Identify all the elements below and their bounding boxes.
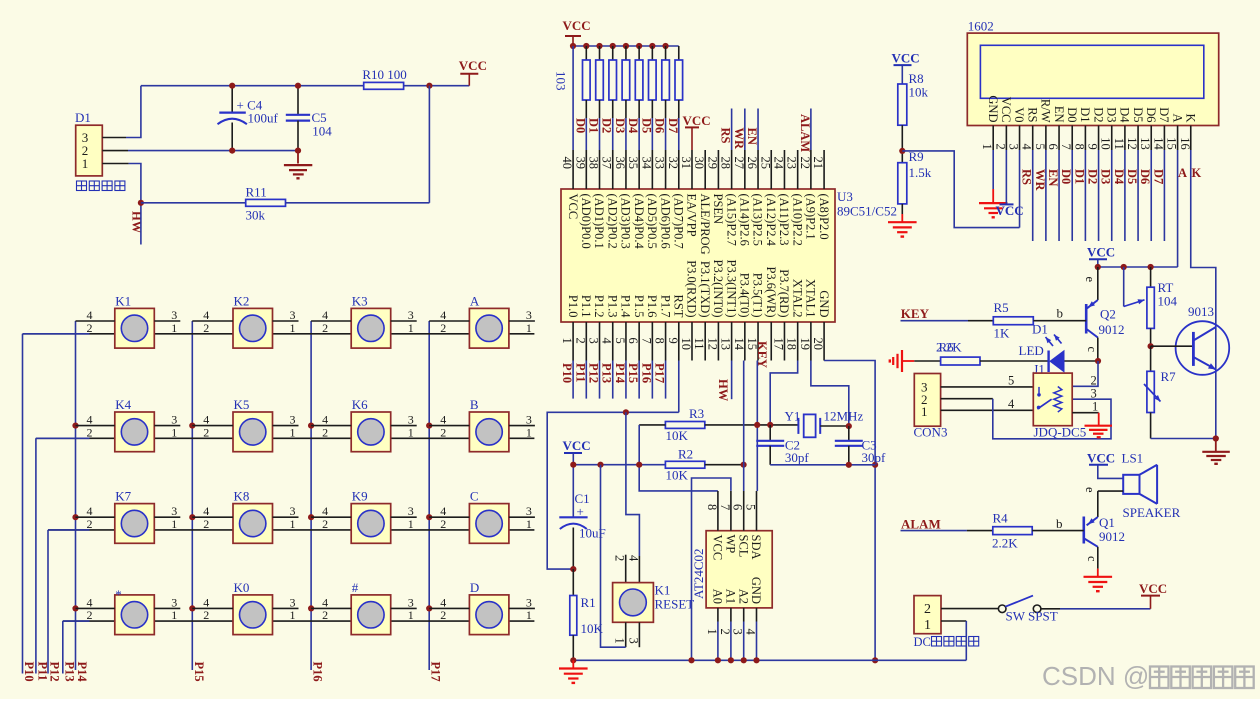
svg-text:VCC: VCC [999,97,1013,123]
pin 9 RST wire [678,361,680,413]
push button K5 [192,397,298,452]
svg-text:2: 2 [1091,373,1097,387]
svg-text:AT24C02: AT24C02 [691,548,706,599]
net label D0 wire (LCD pin 7) [1071,150,1073,241]
svg-text:1: 1 [612,638,626,644]
svg-text:#: # [352,580,359,595]
svg-text:ALE/PROG: ALE/PROG [698,194,712,255]
net label D2 wire (LCD pin 9) [1098,150,1100,241]
svg-text:(AD0)P0.0: (AD0)P0.0 [579,194,593,249]
svg-text:VCC: VCC [563,438,591,453]
svg-text:P3.0(RXD): P3.0(RXD) [685,260,699,317]
svg-text:12: 12 [1125,137,1139,150]
svg-text:7: 7 [1059,144,1073,150]
svg-text:P1.7: P1.7 [658,295,672,318]
svg-text:8: 8 [653,338,667,344]
svg-text:5: 5 [1008,374,1014,388]
resistor R4 2.2K [993,527,1032,535]
svg-text:10K: 10K [666,428,689,443]
svg-text:WP: WP [724,535,738,554]
svg-text:D5: D5 [639,118,653,133]
svg-text:2: 2 [203,321,209,335]
svg-text:30pf: 30pf [862,450,887,465]
svg-text:K0: K0 [234,580,250,595]
svg-text:K7: K7 [115,489,131,504]
net label WR on pin 27 [744,109,746,151]
svg-text:9012: 9012 [1099,529,1125,544]
svg-text:(AD2)P0.2: (AD2)P0.2 [605,194,619,249]
svg-text:1: 1 [290,425,296,439]
relay J1 JDQ-DC5 [1033,373,1072,426]
connector DC power (DC电源接口) [914,596,941,634]
svg-text:P1.1: P1.1 [579,295,593,318]
pin 28 (top) [731,150,733,189]
svg-text:DC: DC [914,635,931,649]
svg-text:3: 3 [626,638,640,644]
wire R3 left to VCC row to AT24C02 pin8 [639,424,665,426]
resistor R3 10K [665,422,704,429]
pin 40 (top) [572,150,574,189]
wire CON3 pin2 to relay pin3 [941,398,993,400]
svg-text:c: c [1085,347,1099,353]
svg-text:10K: 10K [666,468,689,483]
svg-text:16: 16 [1178,137,1192,150]
pin 24 (top) [783,150,785,189]
pin 10 (bottom) [691,322,693,361]
svg-text:22: 22 [798,157,812,170]
svg-text:XTAL2: XTAL2 [790,279,804,318]
svg-text:1: 1 [924,618,931,633]
svg-text:K1: K1 [655,583,671,598]
svg-text:EA/VPP: EA/VPP [685,194,699,237]
svg-text:100uf: 100uf [248,111,279,126]
svg-text:1: 1 [290,517,296,531]
svg-text:PSEN: PSEN [711,194,725,225]
switch SW SPST [941,608,999,610]
pin 37 (top) [612,150,614,189]
svg-text:2: 2 [440,425,446,439]
transistor Q2 9012 [1097,267,1099,300]
LCD pin 6 EN [1058,126,1060,151]
pin 12 (bottom) [717,322,719,361]
pin 6 (bottom) [638,322,640,361]
network resistor element 6 [649,43,655,49]
push button K2 [192,293,298,348]
net label D6 wire (LCD pin 13) [1150,150,1152,241]
svg-text:K8: K8 [234,489,250,504]
pin 8 (bottom) [665,322,667,361]
svg-text:RESET: RESET [655,597,695,612]
svg-text:9012: 9012 [1099,322,1125,337]
svg-text:P1.4: P1.4 [619,295,633,318]
AT24C02 pin 6 SCL [743,491,745,531]
svg-text:P1.5: P1.5 [632,295,646,318]
net label EN wire (LCD pin 6) [1058,150,1060,241]
pin 2 lead of D1 [102,150,128,152]
wire R11 to VCC side [286,202,430,204]
svg-text:P12: P12 [587,363,601,383]
wire LCD pin15 A to VCC rail [1177,150,1179,267]
svg-text:(AD6)P0.6: (AD6)P0.6 [658,194,672,249]
svg-text:JDQ-DC5: JDQ-DC5 [1034,425,1087,440]
svg-text:2: 2 [322,425,328,439]
svg-text:1: 1 [526,425,532,439]
svg-text:23: 23 [785,157,799,170]
svg-text:P10: P10 [560,363,574,383]
pin 20 (bottom) [823,322,825,361]
pin 27 (top) [744,150,746,189]
LCD pin 12 D5 [1137,126,1139,151]
svg-text:Q1: Q1 [1099,515,1115,530]
svg-text:P3.4(T0): P3.4(T0) [738,273,752,318]
AT24C02 pin 5 SDA [756,491,758,531]
svg-text:R10 100: R10 100 [362,67,406,82]
push button A [429,293,535,348]
svg-text:P1.2: P1.2 [592,295,606,318]
svg-text:17: 17 [771,338,785,351]
svg-text:34: 34 [639,157,653,170]
svg-text:D2: D2 [600,118,614,133]
svg-text:VCC: VCC [1087,450,1115,465]
svg-text:VCC: VCC [1139,581,1167,596]
svg-text:CSDN @: CSDN @ [1042,661,1149,691]
svg-text:7: 7 [639,338,653,344]
network resistor element 7 [662,43,668,49]
pin 29 (top) [717,150,719,189]
svg-text:4: 4 [744,629,758,636]
wire R10 to VCC [404,85,430,87]
svg-text:GND: GND [817,290,831,317]
svg-text:A1: A1 [724,589,738,604]
svg-text:2: 2 [440,321,446,335]
wire keypad row bus P13 [62,621,64,673]
LCD pin 10 D3 [1111,126,1113,151]
svg-text:(A12)P2.4: (A12)P2.4 [764,194,778,247]
crystal Y1 12MHz [797,418,799,434]
wire HW stub [140,203,142,245]
LCD pin 3 V0 [1019,126,1021,151]
wire C2/C3 bottom to GND column [770,464,875,466]
svg-text:33: 33 [653,157,667,170]
svg-text:LED: LED [1019,343,1044,358]
svg-text:2: 2 [87,608,93,622]
svg-text:R2: R2 [678,447,693,462]
AT24C02 pin 1 A0 [717,608,719,622]
svg-text:11: 11 [1112,138,1126,150]
svg-text:b: b [1057,306,1064,321]
svg-text:4: 4 [1008,397,1015,411]
capacitor C2 30pf [769,425,771,441]
relay coil [1054,387,1062,413]
wire keypad column bus P17 [428,321,430,670]
net label WR wire (LCD pin 5) [1045,150,1047,241]
svg-text:CON3: CON3 [914,425,948,440]
svg-text:+: + [577,504,584,519]
pin 7 (bottom) [651,322,653,361]
resistor R9 1.5k [898,163,907,204]
svg-text:10k: 10k [909,85,929,100]
wire VCC rail (right) [1098,266,1178,268]
LCD pin 14 D7 [1163,126,1165,151]
pin 2 (bottom) [585,322,587,361]
svg-text:13: 13 [1138,137,1152,150]
svg-text:30: 30 [692,157,706,170]
push button K7 [76,489,181,544]
svg-text:103: 103 [554,71,569,91]
wire K1 pin1 to VCC column [601,465,626,648]
net label EN on pin 26 [757,109,759,151]
wire DC pin1 to ground rail [941,620,966,622]
svg-text:D1: D1 [75,110,91,125]
AT24C02 pin 7 WP [730,491,732,531]
svg-text:35: 35 [626,157,640,170]
push button D [429,580,535,635]
svg-text:3: 3 [1007,144,1021,150]
net label P12 wire (pin 3) [599,361,601,399]
svg-text:1.5k: 1.5k [909,165,932,180]
LCD pin 8 D1 [1084,126,1086,151]
svg-text:SDA: SDA [749,535,763,560]
LCD pin 7 D0 [1071,126,1073,151]
svg-text:VCC: VCC [683,113,711,128]
svg-text:P16: P16 [311,662,325,682]
svg-text:VCC: VCC [711,535,725,561]
wire network VCC rail [573,45,679,47]
wire keypad row line [63,620,535,622]
svg-text:4: 4 [1020,144,1034,151]
svg-text:30pf: 30pf [785,450,810,465]
svg-text:SW SPST: SW SPST [1006,609,1058,624]
pin 30 (top) [704,150,706,189]
svg-text:2: 2 [924,602,931,617]
svg-text:2: 2 [573,338,587,344]
push button K1 [76,293,181,348]
svg-text:24: 24 [771,157,785,170]
svg-text:D2: D2 [1091,107,1105,122]
svg-text:104: 104 [312,123,332,138]
connector CON3 [914,374,940,427]
svg-text:13: 13 [719,338,733,351]
svg-text:A: A [1178,166,1187,180]
IC U? AT24C02 [706,531,772,608]
resistor R6 2.2K (overlapping labels) [914,360,940,362]
svg-text:4: 4 [600,338,614,345]
network resistor element 3 [610,43,616,49]
svg-text:1: 1 [526,608,532,622]
ground (red, sideways) left of R6 [903,360,914,362]
svg-text:K: K [1192,166,1202,180]
push button K9 [311,489,417,544]
svg-text:30k: 30k [246,208,266,223]
svg-text:12: 12 [705,338,719,351]
svg-text:(AD4)P0.4: (AD4)P0.4 [632,194,646,250]
net label P13 wire (pin 4) [612,361,614,399]
svg-text:1: 1 [526,321,532,335]
capacitor C4 100uf [231,86,233,113]
pin 13 (bottom) [731,322,733,361]
junction dots top-left [229,83,235,89]
svg-text:K: K [1183,113,1197,122]
svg-text:2: 2 [322,517,328,531]
pin 31 (top) [691,150,693,189]
AT24C02 pin 4 GND [756,608,758,622]
svg-text:2: 2 [440,517,446,531]
svg-text:D6: D6 [653,118,667,133]
svg-text:XTAL1: XTAL1 [804,279,818,318]
svg-text:D6: D6 [1144,107,1158,122]
pin 9 (bottom) [678,322,680,361]
svg-text:EN: EN [745,128,759,145]
wire SDA column (pin15 - R3 - pin5) [756,361,758,492]
svg-text:WR: WR [1033,169,1047,192]
svg-text:2: 2 [322,321,328,335]
wire D1 pin3 to VCC rail [126,86,141,138]
svg-text:5: 5 [613,338,627,344]
wire LCD pin3 V0 [1019,150,1021,228]
svg-text:GND: GND [986,95,1000,122]
svg-text:2: 2 [87,517,93,531]
svg-text:6: 6 [1046,144,1060,150]
push button C [429,489,535,544]
net label P17 wire (pin 8) [665,361,667,399]
svg-text:D3: D3 [1104,107,1118,122]
svg-text:LS1: LS1 [1122,450,1144,465]
pin 1 lead of D1 [102,163,128,165]
svg-text:D: D [470,580,479,595]
svg-text:7: 7 [718,504,732,510]
pin 14 (bottom) [744,322,746,361]
LCD pin 11 D4 [1124,126,1126,151]
pin 25 (top) [770,150,772,189]
pin 34 (top) [651,150,653,189]
svg-text:P1.3: P1.3 [605,295,619,318]
AT24C02 pin 8 VCC [717,491,719,531]
pin 39 (top) [585,150,587,189]
svg-text:2: 2 [203,608,209,622]
pin 1 (bottom) [572,322,574,361]
svg-text:5: 5 [744,504,758,510]
svg-text:D4: D4 [1118,107,1132,123]
svg-text:A2: A2 [736,589,750,604]
svg-text:K9: K9 [352,489,368,504]
svg-text:A: A [470,293,480,308]
pin 3 (bottom) [599,322,601,361]
svg-text:P15: P15 [626,363,640,383]
svg-text:D4: D4 [626,118,640,134]
ground (maroon) under C5 [297,151,299,164]
svg-text:27: 27 [732,157,746,170]
svg-text:1: 1 [526,517,532,531]
svg-text:39: 39 [573,157,587,170]
pin 19 XTAL1 wire [811,361,849,427]
svg-text:18: 18 [785,338,799,351]
svg-text:P17: P17 [429,662,443,682]
LCD pin 9 D2 [1098,126,1100,151]
push button K6 [311,397,417,452]
svg-text:21: 21 [811,157,825,170]
net label RS on pin 28 [731,109,733,151]
pin 5 (bottom) [625,322,627,361]
net label P16 wire (pin 7) [651,361,653,399]
capacitor C3 30pf [848,426,850,441]
pin 4 (bottom) [612,322,614,361]
svg-text:D7: D7 [1151,169,1165,184]
ground (red) under relay pin1 [1098,413,1100,426]
svg-text:(AD5)P0.5: (AD5)P0.5 [645,194,659,249]
svg-text:1: 1 [408,425,414,439]
wire RST node [547,412,679,569]
svg-text:28: 28 [719,157,733,170]
svg-text:Y1: Y1 [785,409,801,424]
svg-text:R4: R4 [993,510,1009,525]
svg-text:D1: D1 [1072,169,1086,184]
svg-text:9: 9 [1086,144,1100,150]
svg-text:D5: D5 [1125,169,1139,184]
svg-text:38: 38 [587,157,601,170]
svg-text:1: 1 [171,425,177,439]
wire LCD pin1 to ground [992,150,994,189]
svg-text:89C51/C52: 89C51/C52 [837,204,897,219]
svg-text:D4: D4 [1112,169,1126,185]
network resistor element 4 [623,43,629,49]
pin 11 (bottom) [704,322,706,361]
LCD pin 1 GND [992,126,994,151]
svg-text:P3.5(T1): P3.5(T1) [751,273,765,318]
AT24C02 pin 2 A1 [730,608,732,622]
svg-text:1: 1 [408,321,414,335]
svg-text:R7: R7 [1161,369,1177,384]
wire AT24C02 pin7 WP to ground [692,478,731,660]
svg-text:1: 1 [171,321,177,335]
resistor R11 30k [141,202,246,204]
resistor R2 10K [665,461,704,468]
push button B [429,397,535,452]
wire R3 right to crystal [705,424,799,426]
svg-text:1K: 1K [994,326,1011,341]
transistor Q1 9012 [1098,490,1123,492]
svg-text:1: 1 [1092,399,1098,413]
svg-text:U3: U3 [837,189,853,204]
svg-text:12MHz: 12MHz [824,409,864,424]
svg-text:1: 1 [290,608,296,622]
svg-text:VCC: VCC [566,194,580,220]
wire R7 bottom to 9013 emitter node [1151,438,1216,440]
svg-text:25: 25 [758,157,772,170]
resistor R1 10K [572,569,574,595]
svg-text:Q2: Q2 [1100,306,1116,321]
svg-text:10uF: 10uF [579,526,606,541]
net label ALAM on pin 22 [810,109,812,151]
power VCC (LCD pin2, downwards) [1005,150,1007,204]
pin 26 (top) [757,150,759,189]
svg-text:D6: D6 [1138,169,1152,184]
svg-text:10: 10 [1099,137,1113,150]
push button * [76,587,181,635]
svg-text:(A13)P2.5: (A13)P2.5 [751,194,765,246]
svg-text:1: 1 [705,629,719,635]
svg-text:(A11)P2.3: (A11)P2.3 [777,194,791,246]
svg-text:D5: D5 [1131,107,1145,122]
svg-text:P3.1(TXD): P3.1(TXD) [698,261,712,318]
pin 15 (bottom) [757,322,759,361]
svg-text:A: A [1170,113,1184,122]
svg-text:2: 2 [203,425,209,439]
svg-text:(A14)P2.6: (A14)P2.6 [738,194,752,246]
svg-text:P11: P11 [573,363,587,382]
LCD pin 13 D6 [1150,126,1152,151]
svg-text:VCC: VCC [892,51,920,66]
svg-text:P3.6(WR): P3.6(WR) [764,266,778,317]
